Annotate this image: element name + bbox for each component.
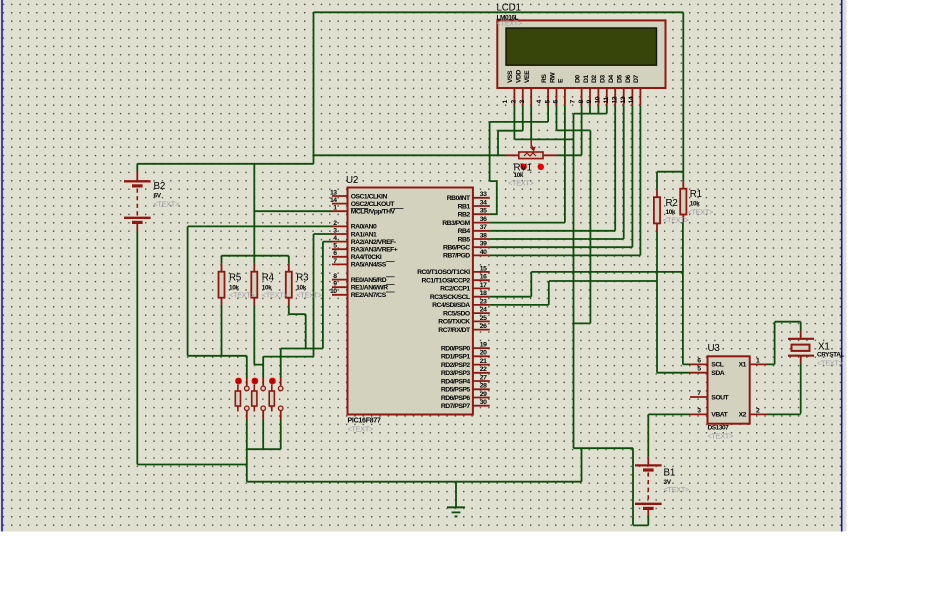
svg-text:RA3/AN3/VREF+: RA3/AN3/VREF+ — [351, 247, 398, 254]
svg-text:<TEXT>: <TEXT> — [296, 291, 322, 300]
svg-text:37: 37 — [480, 224, 487, 231]
svg-text:U3: U3 — [708, 343, 721, 354]
svg-text:D3: D3 — [600, 75, 607, 83]
svg-text:X1: X1 — [739, 362, 747, 369]
svg-text:RD3/PSP3: RD3/PSP3 — [441, 370, 471, 377]
svg-text:D6: D6 — [625, 75, 632, 83]
svg-text:26: 26 — [480, 323, 487, 330]
svg-text:CRYSTAL: CRYSTAL — [817, 352, 844, 359]
svg-text:RA1/AN1: RA1/AN1 — [351, 231, 377, 238]
svg-text:R2: R2 — [666, 198, 678, 209]
svg-text:RC2/CCP1: RC2/CCP1 — [440, 286, 470, 293]
svg-text:15: 15 — [480, 265, 487, 272]
svg-text:OSC1/CLKIN: OSC1/CLKIN — [351, 193, 388, 200]
svg-text:RB4: RB4 — [458, 228, 471, 235]
svg-text:RB3/PGM: RB3/PGM — [442, 220, 470, 227]
svg-text:6V: 6V — [154, 193, 162, 200]
svg-text:D5: D5 — [617, 75, 624, 83]
svg-text:40: 40 — [480, 249, 487, 256]
svg-text:19: 19 — [480, 342, 487, 349]
svg-text:VBAT: VBAT — [711, 412, 728, 419]
svg-text:29: 29 — [480, 391, 487, 398]
svg-text:RC7/RX/DT: RC7/RX/DT — [438, 327, 471, 334]
svg-text:RB2: RB2 — [458, 212, 471, 219]
svg-text:D7: D7 — [633, 75, 640, 83]
svg-text:B2: B2 — [154, 181, 166, 192]
svg-text:RB5: RB5 — [458, 236, 471, 243]
svg-text:VSS: VSS — [507, 70, 514, 83]
svg-text:10: 10 — [330, 288, 337, 295]
svg-text:D4: D4 — [608, 75, 615, 83]
svg-text:39: 39 — [480, 241, 487, 248]
svg-text:17: 17 — [480, 282, 487, 289]
svg-text:27: 27 — [480, 374, 487, 381]
svg-text:<TEXT>: <TEXT> — [154, 200, 180, 209]
svg-text:<TEXT>: <TEXT> — [497, 19, 523, 28]
svg-text:13: 13 — [330, 189, 337, 196]
svg-text:RD6/PSP6: RD6/PSP6 — [441, 395, 471, 402]
svg-text:D2: D2 — [591, 75, 598, 83]
svg-text:28: 28 — [480, 383, 487, 390]
svg-text:SOUT: SOUT — [711, 394, 729, 401]
svg-text:RA0/AN0: RA0/AN0 — [351, 224, 377, 231]
svg-text:U2: U2 — [346, 175, 358, 186]
svg-text:RD2/PSP2: RD2/PSP2 — [441, 362, 471, 369]
svg-text:38: 38 — [480, 232, 487, 239]
svg-text:R4: R4 — [262, 273, 275, 284]
svg-text:<TEXT>: <TEXT> — [262, 291, 288, 300]
svg-text:VEE: VEE — [524, 70, 531, 83]
svg-text:33: 33 — [480, 191, 487, 198]
svg-text:RE1/AN6/WR: RE1/AN6/WR — [351, 285, 389, 292]
svg-text:R1: R1 — [690, 189, 702, 200]
svg-text:13: 13 — [620, 96, 627, 103]
svg-text:<TEXT>: <TEXT> — [508, 179, 534, 188]
svg-text:RC0/T1OSO/T1CKI: RC0/T1OSO/T1CKI — [417, 269, 470, 276]
svg-text:14: 14 — [330, 197, 337, 204]
svg-text:21: 21 — [480, 358, 487, 365]
svg-text:24: 24 — [480, 307, 487, 314]
svg-text:18: 18 — [480, 290, 487, 297]
svg-text:14: 14 — [628, 96, 635, 103]
svg-text:<TEXT>: <TEXT> — [708, 432, 734, 441]
svg-text:<TEXT>: <TEXT> — [688, 208, 714, 217]
svg-text:30: 30 — [480, 399, 487, 406]
svg-text:16: 16 — [480, 274, 487, 281]
svg-text:RE0/AN5/RD: RE0/AN5/RD — [351, 277, 387, 284]
svg-text:RE2/AN7/CS: RE2/AN7/CS — [351, 292, 387, 299]
svg-text:RA4/T0CKI: RA4/T0CKI — [351, 254, 382, 261]
svg-text:<TEXT>: <TEXT> — [663, 216, 689, 225]
svg-text:RC5/SDO: RC5/SDO — [443, 310, 470, 317]
svg-text:D0: D0 — [574, 75, 581, 83]
svg-text:10k: 10k — [690, 201, 700, 208]
svg-text:RB6/PGC: RB6/PGC — [443, 245, 470, 252]
svg-text:SDA: SDA — [711, 370, 724, 377]
svg-text:22: 22 — [480, 366, 487, 373]
svg-text:D1: D1 — [583, 75, 590, 83]
svg-text:RD5/PSP5: RD5/PSP5 — [441, 387, 471, 394]
svg-text:RC6/TX/CK: RC6/TX/CK — [438, 319, 470, 326]
svg-text:B1: B1 — [664, 468, 676, 479]
svg-text:R5: R5 — [229, 273, 242, 284]
svg-text:RB7/PGD: RB7/PGD — [443, 253, 470, 260]
svg-text:36: 36 — [480, 216, 487, 223]
svg-text:RD7/PSP7: RD7/PSP7 — [441, 403, 471, 410]
svg-text:12: 12 — [612, 96, 619, 103]
svg-text:<TEXT>: <TEXT> — [817, 359, 843, 368]
svg-text:34: 34 — [480, 199, 487, 206]
svg-text:RC4/SDI/SDA: RC4/SDI/SDA — [432, 302, 470, 309]
svg-text:OSC2/CLKOUT: OSC2/CLKOUT — [351, 201, 396, 208]
svg-text:RC3/SCK/SCL: RC3/SCK/SCL — [430, 294, 470, 301]
svg-text:SCL: SCL — [711, 362, 723, 369]
svg-text:23: 23 — [480, 298, 487, 305]
svg-text:RD0/PSP0: RD0/PSP0 — [441, 345, 471, 352]
svg-text:<TEXT>: <TEXT> — [348, 425, 374, 434]
svg-text:<TEXT>: <TEXT> — [229, 291, 255, 300]
svg-text:DS1307: DS1307 — [708, 425, 730, 432]
svg-text:R3: R3 — [296, 273, 309, 284]
svg-text:RD1/PSP1: RD1/PSP1 — [441, 354, 471, 361]
svg-text:RW: RW — [549, 72, 556, 83]
svg-text:20: 20 — [480, 350, 487, 357]
svg-text:LCD1: LCD1 — [497, 3, 521, 14]
svg-text:25: 25 — [480, 315, 487, 322]
svg-text:RA5/AN4/SS: RA5/AN4/SS — [351, 262, 387, 269]
svg-text:RC1/T1OSI/CCP2: RC1/T1OSI/CCP2 — [422, 278, 471, 285]
svg-text:RB0/INT: RB0/INT — [447, 195, 471, 202]
svg-text:RB1: RB1 — [458, 203, 471, 210]
svg-text:PIC16F877: PIC16F877 — [348, 418, 382, 425]
svg-text:MCLR/Vpp/THV: MCLR/Vpp/THV — [351, 209, 396, 216]
svg-text:RA2/AN2/VREF-: RA2/AN2/VREF- — [351, 239, 396, 246]
svg-text:10: 10 — [595, 96, 602, 103]
svg-text:X2: X2 — [739, 412, 747, 419]
svg-text:VDD: VDD — [516, 70, 523, 83]
svg-text:35: 35 — [480, 208, 487, 215]
svg-text:RS: RS — [541, 74, 548, 83]
svg-text:RD4/PSP4: RD4/PSP4 — [441, 378, 471, 385]
svg-text:11: 11 — [603, 97, 610, 104]
svg-text:<TEXT>: <TEXT> — [664, 485, 690, 494]
